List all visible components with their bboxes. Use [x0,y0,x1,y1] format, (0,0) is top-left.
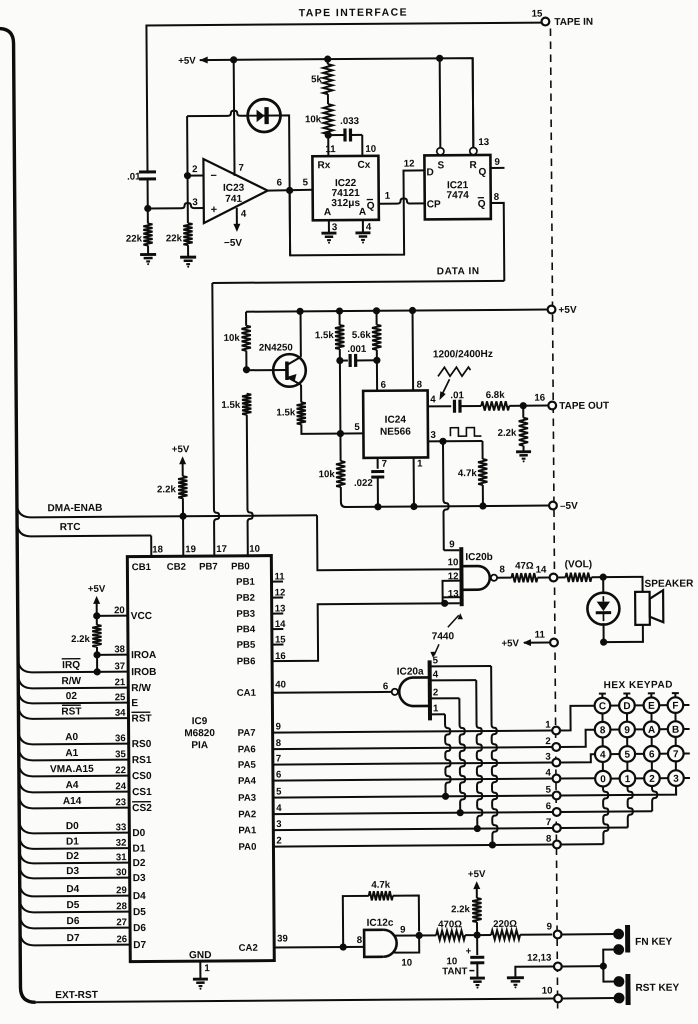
svg-text:D6: D6 [133,923,146,934]
svg-text:7: 7 [382,459,387,470]
wire pin2 tie [188,175,204,177]
wire emitter to pin5 [301,424,363,434]
svg-text:11: 11 [535,630,546,641]
ground 22k pin2 [180,256,196,259]
svg-text:C: C [599,701,606,712]
svg-text:D0: D0 [132,828,145,839]
pin 31 D2 [19,849,129,864]
svg-text:36: 36 [115,733,126,744]
resistor 220ohm [477,934,491,936]
svg-text:9: 9 [624,725,630,736]
svg-text:10k: 10k [319,469,336,480]
keypad grid wires [594,705,596,707]
wire sawtooth arrow [441,379,450,396]
svg-text:7: 7 [276,754,281,765]
svg-text:PB4: PB4 [236,624,255,635]
svg-text:6.8k: 6.8k [486,390,506,401]
svg-text:40: 40 [275,679,286,690]
wire R clear pullup [472,58,475,147]
svg-text:B: B [672,725,679,736]
svg-text:9: 9 [400,925,406,936]
svg-text:PA1: PA1 [238,825,257,836]
svg-text:02: 02 [66,691,78,702]
svg-text:4: 4 [241,209,247,220]
terminal 5 [553,792,561,800]
wire IC20a pin5 [430,665,491,667]
svg-text:470Ω: 470Ω [438,919,462,930]
svg-text:9: 9 [449,539,455,550]
svg-text:PB3: PB3 [236,609,255,620]
svg-text:CB2: CB2 [167,562,186,573]
svg-text:D7: D7 [133,940,146,951]
svg-text:5: 5 [624,750,630,761]
svg-text:5: 5 [433,655,439,666]
svg-text:5: 5 [354,422,360,433]
wire t7 to col1 [561,826,627,828]
resistor 2.2k keys [476,922,478,935]
wire PA0 row [273,845,552,847]
svg-text:1.5k: 1.5k [221,400,241,411]
wire CA2 [274,946,364,949]
resistor 4.7k [481,441,483,459]
svg-text:RS1: RS1 [132,755,152,766]
svg-text:PIA: PIA [191,740,208,751]
svg-text:PB1: PB1 [236,577,255,588]
wire t8 to col0 [562,843,604,845]
svg-text:F: F [672,701,678,712]
svg-text:31: 31 [116,852,127,863]
svg-text:8: 8 [276,738,282,749]
terminal 10 [554,995,562,1003]
terminal 14 [550,574,558,582]
svg-text:14: 14 [536,565,547,576]
key 8 [595,722,611,738]
svg-text:PB2: PB2 [236,593,255,604]
svg-text:HEX KEYPAD: HEX KEYPAD [604,680,673,692]
svg-text:2.2k: 2.2k [498,428,518,439]
pin 37 IROB [18,658,128,673]
diode D1 feedback [248,99,281,132]
svg-text:A: A [648,725,655,736]
svg-text:5: 5 [546,785,552,796]
resistor 1.5k rail [339,311,341,325]
svg-text:RST KEY: RST KEY [635,983,679,994]
svg-text:11: 11 [325,144,336,155]
svg-text:2.2k: 2.2k [71,634,91,645]
svg-text:26: 26 [116,934,127,945]
svg-text:6: 6 [383,681,389,692]
svg-text:+: + [466,946,472,957]
pin 29 D4 [20,882,130,897]
svg-text:IC23: IC23 [223,183,245,194]
svg-text:17: 17 [216,544,227,555]
wire t12 ground [515,967,553,978]
wire IC20a pin1 [430,713,445,715]
svg-text:IC20b: IC20b [465,552,493,563]
resistor VOL [558,576,565,578]
ground IC22 pin3 [321,232,336,235]
wire t4 to row 0 [561,777,595,779]
wire op-amp output to IC22 pin5 [268,189,313,192]
svg-text:2.2k: 2.2k [157,484,177,495]
svg-text:35: 35 [115,749,126,760]
svg-text:25: 25 [115,692,126,703]
key A [644,721,660,737]
svg-text:1: 1 [433,703,439,714]
wire pin7 [377,458,379,469]
svg-text:13: 13 [478,137,489,148]
pin 28 D5 [20,898,130,913]
svg-text:CP: CP [427,199,441,210]
pin 23 CS2 [19,794,129,809]
sawtooth symbol [438,367,471,376]
svg-text:5: 5 [303,177,309,188]
key 9 [619,722,635,738]
svg-text:E: E [131,698,138,709]
svg-text:8: 8 [494,192,500,203]
svg-text:PA4: PA4 [238,776,257,787]
wire key col1 drop [628,786,634,827]
svg-text:EXT-RST: EXT-RST [55,990,99,1001]
key 0 [595,771,611,787]
resistor 10k base [245,312,247,326]
svg-text:1: 1 [204,963,210,974]
node .001 right [373,357,380,364]
wire PA4 row [273,779,552,781]
svg-text:M6820: M6820 [184,728,215,739]
ground 12-13 [507,976,524,979]
PIA IC9 M6820 [127,556,274,962]
svg-text:12: 12 [404,159,415,170]
node LED bottom [600,639,607,646]
wire RTC [17,521,151,536]
gate IC12c [364,930,383,957]
svg-text:PA6: PA6 [238,744,256,755]
svg-text:2: 2 [276,836,281,847]
wire key col3 drop [675,786,677,795]
svg-text:TAPE IN: TAPE IN [554,17,593,28]
svg-text:A: A [324,207,332,218]
resistor 2.2k IRQ pullup [93,612,100,619]
resistor 22k pin2 [183,223,192,245]
terminal 11 +5V [550,639,558,647]
resistor 22k input [143,223,152,245]
resistor 1.5k PB0 chain [242,394,251,415]
wire t5 to col3 [561,786,676,796]
wire PB7 data-in vertical [212,283,219,556]
svg-text:22: 22 [115,765,126,776]
wire pin1 to -5V [413,458,415,507]
svg-text:–5V: –5V [560,501,578,512]
svg-text:3: 3 [430,430,436,441]
svg-text:3: 3 [545,752,551,763]
svg-text:RTC: RTC [60,522,82,533]
svg-text:Cx: Cx [357,160,370,171]
key 6 [644,746,660,762]
svg-text:1.5k: 1.5k [315,330,335,341]
svg-text:0: 0 [600,774,606,785]
svg-text:Q: Q [478,199,486,210]
svg-text:IC20a: IC20a [397,666,424,677]
key RST [614,976,625,987]
wire VCC supply [97,615,128,617]
svg-text:38: 38 [114,644,125,655]
svg-text:D: D [623,701,630,712]
svg-text:CS1: CS1 [132,787,152,798]
wire +5V mid rail [246,310,547,312]
svg-text:D4: D4 [133,891,146,902]
key FN [613,929,624,940]
wire IC20a pin4 [430,679,476,681]
svg-text:D5: D5 [133,907,146,918]
svg-text:IROA: IROA [131,650,157,661]
svg-text:D1: D1 [66,836,79,847]
svg-text:D: D [426,167,433,178]
svg-text:−: − [210,170,217,182]
svg-text:4: 4 [276,803,282,814]
wire tape-in top rail [146,23,542,174]
svg-text:E: E [648,701,655,712]
svg-text:.01: .01 [450,390,464,401]
resistor 10k timing [323,104,332,134]
wire PA5 row [273,763,552,765]
svg-text:7: 7 [546,817,551,828]
key B [668,721,684,737]
svg-text:28: 28 [116,901,127,912]
wire PA1 row [273,828,552,830]
pin 32 D1 [19,834,129,849]
wire t2 to row 8 [561,730,595,747]
svg-text:7474: 7474 [446,190,469,201]
terminal 9 [554,931,562,939]
svg-text:PA3: PA3 [238,793,256,804]
svg-text:8: 8 [546,834,552,845]
wire PB6 to IC20b pin13 [272,603,460,661]
wire pin4 out [428,405,451,407]
wire +5V rail tape [200,58,474,150]
terminal 6 [553,808,561,816]
svg-text:47Ω: 47Ω [515,561,534,572]
resistor 4.7k feedback [369,891,393,900]
terminal 7 [553,824,561,832]
svg-text:TAPE OUT: TAPE OUT [559,401,609,412]
wire IC21 pin9 stub [490,167,504,169]
op-amp IC23 741 [203,159,267,223]
gate IC20b 7440 [459,547,463,606]
terminal 4 [553,775,561,783]
wire diode feedback loop [186,116,188,175]
svg-text:CA2: CA2 [239,943,258,954]
svg-text:33: 33 [116,822,127,833]
bus system edge [0,28,36,1002]
svg-text:4: 4 [366,222,372,233]
pin 33 D0 [19,819,129,834]
wire op-amp pin7 supply [233,60,236,176]
svg-text:IROB: IROB [131,667,156,678]
wire pin3 out [428,440,443,442]
svg-text:D7: D7 [67,933,80,944]
svg-text:PB7: PB7 [199,561,218,572]
wire S preset pullup [439,58,442,147]
key 1 [620,771,636,787]
pin 24 CS1 [19,778,129,793]
terminal 16 TAPE OUT [548,402,556,410]
svg-text:+5V: +5V [468,869,486,880]
pin 30 D3 [20,864,130,879]
svg-text:Q: Q [478,167,486,178]
svg-text:Rx: Rx [317,160,330,171]
svg-text:VMA.A15: VMA.A15 [50,764,94,775]
svg-text:5.6k: 5.6k [352,330,372,341]
terminal 8 [553,841,561,849]
terminal 2 [552,743,560,751]
svg-text:22k: 22k [166,233,183,244]
wire pin8 NE566 [412,311,415,391]
net: dashed interface boundary line [550,29,557,1009]
svg-text:R/W: R/W [61,676,81,687]
svg-text:PA5: PA5 [238,760,257,771]
wire t6 to col2 [561,810,652,813]
svg-text:16: 16 [534,393,545,404]
ground 2.2k out [516,450,531,453]
svg-text:+5V: +5V [178,56,196,67]
square wave symbol [450,428,481,437]
capacitor .022 [371,470,384,473]
wire PA7 row [273,731,552,733]
svg-text:1: 1 [625,774,631,785]
terminal 1 [552,727,560,735]
wire +5V CB2 pullup [179,456,186,464]
svg-text:9: 9 [547,922,553,933]
svg-text:8: 8 [600,725,606,736]
svg-text:2.2k: 2.2k [451,904,471,915]
svg-text:+5V: +5V [88,584,106,595]
wire pin3 to IC20b pin9 [443,441,449,550]
pin 27 D6 [20,914,130,929]
svg-text:R/W: R/W [131,683,151,694]
svg-text:.001: .001 [347,344,367,355]
node op-amp pin3 [144,205,151,212]
svg-text:3: 3 [673,774,679,785]
capacitor TANT 10uF [476,935,478,955]
svg-text:4: 4 [545,768,551,779]
node tape-out [520,402,527,409]
svg-text:IC12c: IC12c [367,918,394,929]
wire PA6 row [273,747,552,749]
svg-text:D3: D3 [133,873,146,884]
svg-text:30: 30 [116,867,127,878]
svg-text:8: 8 [357,935,363,946]
svg-text:TAPE INTERFACE: TAPE INTERFACE [299,7,408,20]
svg-text:34: 34 [115,708,126,719]
svg-text:22k: 22k [126,234,143,245]
svg-text:PA2: PA2 [238,809,256,820]
key 4 [595,746,611,762]
svg-text:1200/2400Hz: 1200/2400Hz [433,349,493,360]
terminal -5V [549,502,557,510]
wire t10 to RST [563,997,616,999]
node LED top [600,574,607,581]
svg-text:PA7: PA7 [238,728,256,739]
svg-text:RST: RST [61,706,82,717]
svg-text:IC9: IC9 [192,716,208,727]
wire feedback to 7474 D [290,170,426,255]
capacitor .001 [340,360,348,362]
wire DMA-ENAB [17,501,317,517]
node Rx junction [325,132,332,139]
svg-text:10: 10 [365,144,376,155]
svg-text:CB1: CB1 [132,562,152,573]
svg-text:R: R [469,160,477,171]
svg-text:6: 6 [649,749,655,760]
svg-text:3: 3 [192,197,198,208]
svg-text:29: 29 [116,885,127,896]
svg-text:8: 8 [417,379,423,390]
svg-text:IRQ: IRQ [62,660,80,671]
svg-text:VCC: VCC [131,611,153,622]
pin 22 CS0 [19,762,129,777]
resistor 10k pin5 chain [339,434,341,461]
svg-text:PB5: PB5 [237,640,256,651]
svg-text:PA0: PA0 [238,842,256,853]
transistor Q1 2N4250 [273,354,306,387]
resistor 1.5k emitter [297,402,306,424]
pin 34 RST [18,704,128,719]
wire EXT-RST [36,999,555,1003]
pin 35 RS1 [19,746,129,761]
svg-text:37: 37 [114,661,125,672]
wire CA1 [272,691,391,694]
wire Q1bar to CP [379,198,425,204]
svg-text:21: 21 [115,677,126,688]
wire IROA [97,654,128,656]
LED indicator [587,593,619,625]
capacitor .01 out [453,400,456,413]
svg-text:5: 5 [276,786,282,797]
svg-text:GND: GND [189,950,212,961]
svg-text:2: 2 [545,736,550,747]
svg-text:741: 741 [225,194,242,205]
capacitor .033 [328,134,344,136]
svg-text:15: 15 [532,9,543,20]
svg-text:4: 4 [430,394,436,405]
svg-text:PB0: PB0 [231,561,250,572]
ground PIA pin1 [193,978,208,981]
svg-text:D2: D2 [133,858,146,869]
svg-text:−5V: −5V [224,238,242,249]
pin 26 D7 [20,931,130,946]
wire 4.7k feedback [343,896,369,947]
svg-text:19: 19 [185,544,196,555]
wire IC12c pin10 [394,935,419,952]
capacitor C1 .01 [139,170,156,173]
svg-text:2N4250: 2N4250 [259,342,293,353]
node .001 left [336,357,343,364]
key E [644,697,660,713]
wire IC21 pin8 Q-bar out [491,203,505,281]
wire IC22 pin3 ground [328,220,330,233]
svg-text:10: 10 [401,958,412,969]
node key node [473,931,480,938]
svg-text:1: 1 [417,458,423,469]
pin 21 R/W [18,674,128,689]
key 5 [619,746,635,762]
svg-text:CA1: CA1 [237,688,257,699]
svg-text:4: 4 [433,669,439,680]
svg-text:6: 6 [546,801,552,812]
wire IC20b pin12 stub [443,581,462,604]
svg-text:2: 2 [192,164,197,175]
